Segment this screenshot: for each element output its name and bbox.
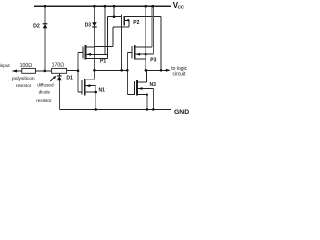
svg-text:D2: D2 — [33, 24, 40, 30]
diode D2 — [43, 23, 48, 28]
wire D2 branch x45 — [44, 6, 46, 71]
node P3 source-rail line — [145, 53, 147, 55]
wire P2 gate bar down to stage1 output — [121, 15, 123, 71]
svg-text:100Ω: 100Ω — [20, 63, 33, 69]
wire feedback right vertical x161 — [160, 16, 162, 70]
svg-text:polysilicon: polysilicon — [12, 76, 35, 82]
node out1-D3 — [93, 69, 96, 72]
node N1 source-body — [94, 91, 97, 94]
node rail-P3drain — [144, 5, 147, 8]
wire D1 stub from box2 — [58, 73, 60, 75]
svg-text:resistor: resistor — [16, 83, 32, 88]
wire P2 left vertical to P1 — [107, 17, 109, 59]
wire box2 to gate bus — [67, 70, 78, 72]
output arrowhead to logic circuit — [166, 69, 171, 72]
svg-text:diode: diode — [39, 90, 51, 95]
transistor P3 — [132, 45, 154, 59]
transistor P2 — [94, 16, 129, 47]
resistor diffused diode box — [52, 68, 67, 73]
label pointer arrow diffused diode — [50, 77, 55, 81]
wire N1 source body to GND — [95, 86, 97, 110]
node gate bus 1 — [77, 69, 80, 72]
wire gate bus 1 — [77, 52, 79, 92]
wire P3 source up to rail — [153, 6, 155, 54]
svg-text:resistor: resistor — [36, 98, 52, 103]
node out2-feedback — [160, 69, 163, 72]
wire N3 mid to GND x153.3 — [152, 89, 154, 110]
wire N3 gate lead — [127, 94, 134, 96]
wire P2 gate horizontal y16.7 — [108, 16, 122, 18]
wire P3 gate lead — [127, 51, 132, 53]
svg-text:P3: P3 — [150, 58, 156, 64]
wire P3 drain Vcc line x145.7 — [145, 6, 147, 70]
transistor N1 — [82, 79, 96, 95]
node input-D2 — [44, 70, 47, 73]
node rail-D2 — [44, 5, 47, 8]
svg-text:N3: N3 — [150, 82, 157, 88]
svg-text:P1: P1 — [100, 58, 106, 64]
wire stage2 output — [146, 69, 169, 71]
node P2 source stub — [113, 15, 116, 18]
node rail-P2 — [113, 5, 116, 8]
node out1-P2gate — [120, 69, 123, 72]
wire input lead — [13, 70, 24, 72]
node rail-P1body — [104, 5, 107, 8]
resistor R 100ohm polysilicon box — [22, 68, 36, 73]
transistor N3 — [134, 80, 153, 95]
svg-text:D1: D1 — [66, 75, 73, 81]
svg-text:P2: P2 — [133, 20, 139, 26]
wire D3 output line x94.4 — [86, 6, 95, 79]
wire N3 source body down to GND — [146, 95, 148, 110]
svg-text:input: input — [0, 63, 10, 68]
junction dots — [44, 5, 163, 111]
svg-text:D3: D3 — [85, 23, 92, 29]
wire P2 top lead to feedback — [124, 15, 161, 17]
node GND-N1 — [94, 108, 97, 111]
node GND-N3b — [152, 108, 155, 111]
svg-text:170Ω: 170Ω — [52, 62, 65, 68]
wire GND rail — [59, 108, 171, 110]
wire gate bus 2 — [126, 52, 128, 94]
wire P3 top lead corner up — [151, 6, 153, 47]
diode D1 — [57, 75, 62, 80]
wire Vcc rail — [34, 5, 171, 7]
node N3 bottom — [146, 94, 148, 96]
svg-text:N1: N1 — [99, 88, 106, 94]
wire N1 gate lead — [78, 91, 82, 93]
svg-text:GND: GND — [174, 109, 189, 116]
svg-text:circuit: circuit — [173, 71, 187, 77]
node out1-bus2 — [126, 69, 129, 72]
node GND-N3a — [146, 108, 149, 111]
diode D3 — [92, 22, 97, 27]
svg-text:diffused: diffused — [37, 82, 54, 87]
node rail-D3 — [93, 5, 96, 8]
wire N3 drain corner up — [146, 70, 148, 82]
wire stage1 output horizontal — [94, 69, 127, 71]
transistor P1 — [83, 45, 108, 59]
wire box1 to box2 — [35, 70, 51, 72]
input arrowhead — [12, 70, 17, 73]
wire P1 gate lead — [78, 51, 83, 53]
node rail-P3source — [151, 5, 154, 8]
wire D1 down to GND — [58, 79, 60, 109]
wire P1 source to rail x104.9 — [104, 6, 106, 54]
node out2-left — [145, 69, 148, 72]
wire Vcc stub to P2 — [113, 6, 115, 17]
svg-text:CC: CC — [178, 4, 185, 9]
